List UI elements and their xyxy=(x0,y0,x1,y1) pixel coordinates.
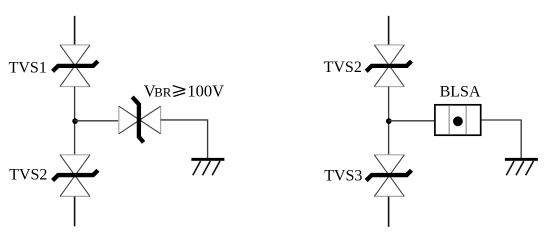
svg-text:TVS3: TVS3 xyxy=(324,168,362,185)
wire clamp diode to ground corner xyxy=(161,120,208,158)
svg-text:TVS1: TVS1 xyxy=(9,60,47,77)
node junction dot xyxy=(72,118,78,124)
TVS bidirectional diode TVS2 (right) xyxy=(366,45,411,87)
svg-text:TVS2: TVS2 xyxy=(324,59,362,76)
svg-text:100V: 100V xyxy=(187,82,224,101)
svg-text:BR: BR xyxy=(154,86,172,100)
TVS bidirectional diode TVS1 xyxy=(53,45,98,87)
wire bottom lead of right branch xyxy=(388,197,390,227)
ground (right) xyxy=(505,158,538,175)
wire vertical between TVS2 and TVS3 xyxy=(388,87,390,155)
TVS bidirectional diode TVS2 (left) xyxy=(53,155,98,197)
ground (left) xyxy=(191,158,224,175)
wire bottom lead of left branch xyxy=(74,197,76,227)
wire BLSA to ground corner xyxy=(481,120,522,158)
label VBR>=100V xyxy=(144,82,224,101)
gas discharge tube arrester BLSA xyxy=(435,105,481,135)
wire top lead of right branch xyxy=(388,16,390,45)
wire node to BLSA arrester xyxy=(389,120,435,122)
wire top lead of left branch xyxy=(74,16,76,45)
wire node to clamp diode xyxy=(75,120,119,122)
wire vertical between TVS1 and TVS2 xyxy=(74,87,76,155)
TVS clamp diode (horizontal, VBR>=100V) xyxy=(119,97,161,142)
node junction dot (right) xyxy=(386,118,392,124)
svg-text:TVS2: TVS2 xyxy=(9,167,47,184)
TVS bidirectional diode TVS3 xyxy=(366,155,411,197)
svg-text:BLSA: BLSA xyxy=(440,83,481,100)
